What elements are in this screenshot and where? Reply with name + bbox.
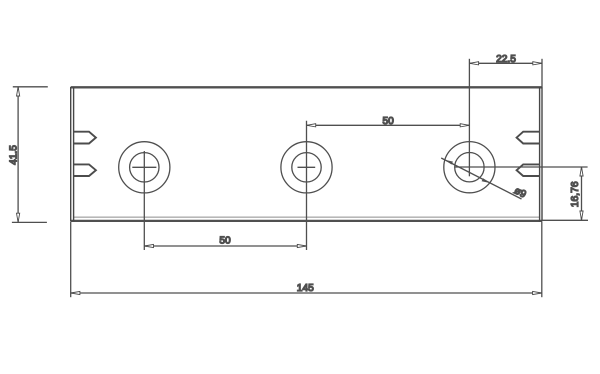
leader diameter 9 arrow upper-left [445, 160, 453, 165]
tab T3 right upper [517, 132, 540, 144]
hole H2 vertical centerline / extension [306, 121, 308, 250]
dimension 41.5 arrow down [17, 213, 20, 222]
dimension 41.5 extension line top [13, 86, 48, 88]
dimension 22.5 arrow left [470, 62, 479, 65]
dimension 50 top arrow left [307, 124, 316, 127]
hole H3 horizontal centerline / extension to 16,76 dim [454, 166, 587, 168]
dimension 16,76 bottom extension (plate bottom edge extended) [542, 219, 588, 221]
dimension 16,76 arrow up [580, 167, 583, 176]
leader line diameter 9 [441, 158, 521, 199]
hole H2 bore circle [292, 153, 321, 182]
plate left outer edge [70, 87, 72, 222]
hole H2 horizontal centerline [298, 166, 316, 168]
dimension 50 bottom arrow left [145, 244, 154, 247]
dimension 50 top line [307, 124, 470, 126]
dimension 41.5 extension line bottom [12, 221, 47, 223]
svg-text:41.5: 41.5 [9, 145, 20, 165]
plate top edge [71, 86, 542, 88]
plate left bend line [73, 87, 75, 222]
dimension 145 right extension [541, 222, 543, 297]
dimension 16,76 line [581, 167, 583, 220]
tab T2 left lower [74, 164, 96, 176]
dimension 50 bottom line [144, 245, 306, 247]
dimension 41.5 line [17, 87, 19, 222]
dimension 16,76 arrow down [580, 211, 583, 220]
dimension 145 arrow right [533, 291, 542, 294]
svg-text:50: 50 [219, 236, 231, 247]
dimension 145 arrow left [71, 291, 80, 294]
svg-text:50: 50 [383, 116, 395, 127]
plate bottom edge [71, 220, 542, 222]
plate bottom bend line [74, 216, 540, 218]
hole H1 horizontal centerline [132, 166, 156, 168]
hole H1 bore circle [130, 153, 159, 182]
hole H1 vertical centerline / extension [143, 151, 145, 250]
dimension 22.5 right extension [541, 59, 543, 87]
dimension 50 top arrow right [460, 124, 469, 127]
plate right bend line [539, 87, 541, 222]
hole H1 outer circle [119, 142, 170, 193]
svg-text:22.5: 22.5 [496, 54, 516, 65]
dimension 145 line [71, 292, 542, 294]
dimension 22.5 arrow right [533, 62, 542, 65]
plate right outer edge [541, 87, 543, 222]
svg-text:ø9: ø9 [512, 185, 528, 200]
hole H3 vertical centerline / extension to 22.5 dim [468, 59, 470, 177]
hole H3 outer circle [444, 142, 495, 193]
svg-text:16,76: 16,76 [570, 181, 581, 207]
dimension 22.5 line [469, 62, 542, 64]
hole H3 bore circle [455, 153, 484, 182]
leader diameter 9 arrow lower-right [482, 178, 490, 183]
hole H2 outer circle [281, 142, 332, 193]
svg-text:145: 145 [297, 283, 314, 294]
tab T4 right lower [517, 164, 540, 176]
dimension 50 bottom arrow right [297, 244, 306, 247]
dimension 145 left extension [70, 222, 72, 297]
dimension 41.5 arrow up [17, 87, 20, 96]
tab T1 left upper [74, 132, 96, 144]
